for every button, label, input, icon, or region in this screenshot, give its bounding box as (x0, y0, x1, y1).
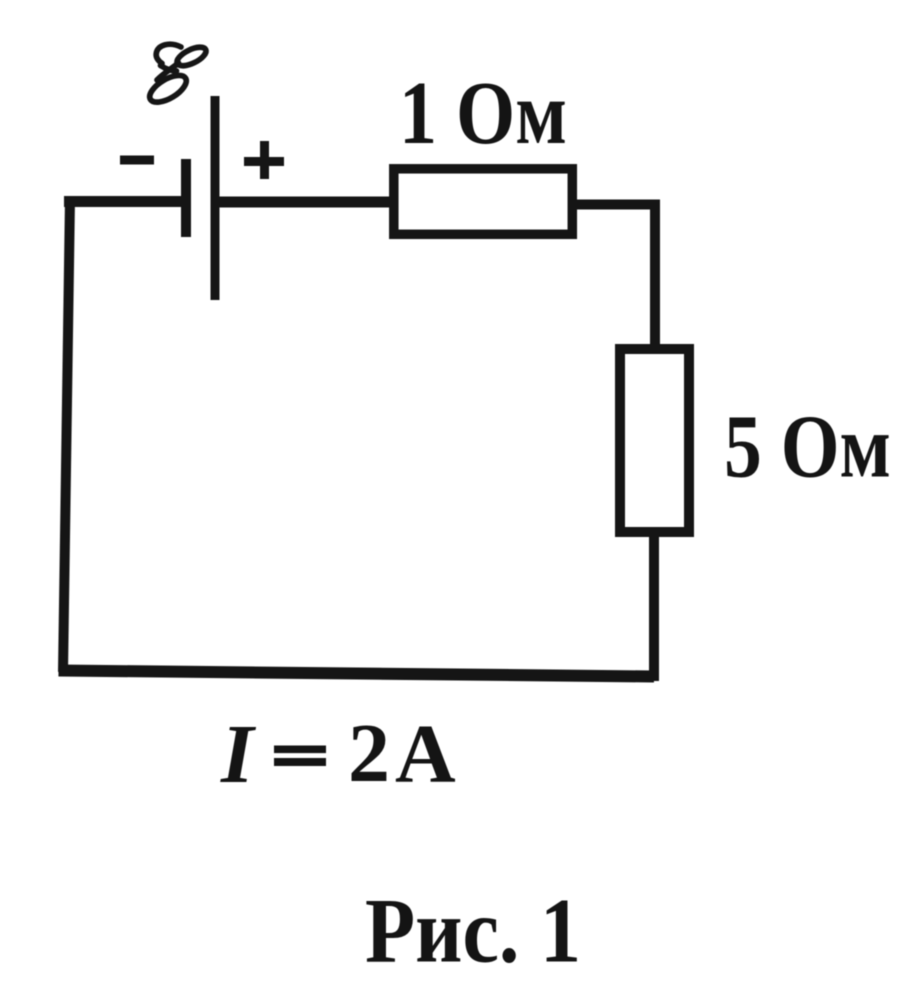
svg-text:I: I (220, 708, 257, 801)
svg-text:Рис. 1: Рис. 1 (365, 880, 581, 982)
svg-text:2: 2 (348, 707, 390, 800)
svg-text:А: А (395, 708, 456, 801)
svg-text:1 Ом: 1 Ом (399, 64, 567, 163)
svg-text:5 Ом: 5 Ом (724, 398, 891, 497)
